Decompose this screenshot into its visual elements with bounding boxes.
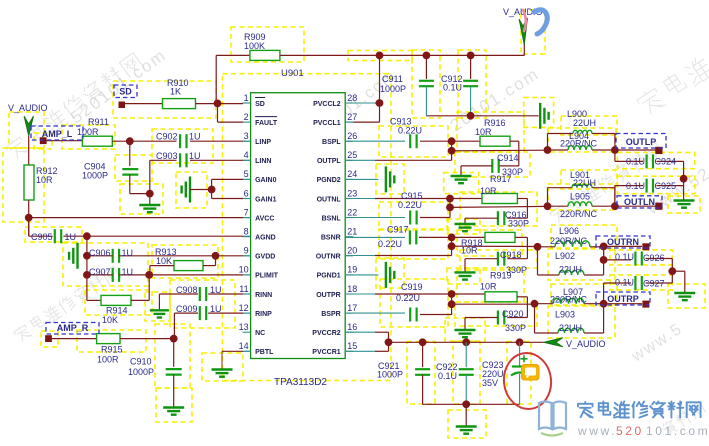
svg-text:GAIN1: GAIN1 — [255, 196, 277, 203]
svg-text:0.1U: 0.1U — [443, 83, 462, 93]
svg-text:GAIN0: GAIN0 — [255, 177, 277, 184]
svg-text:NC: NC — [255, 330, 265, 337]
svg-text:OUTNR: OUTNR — [316, 254, 341, 261]
svg-text:10K: 10K — [156, 256, 172, 266]
svg-text:RINP: RINP — [255, 311, 272, 318]
svg-text:22UH: 22UH — [573, 178, 596, 188]
svg-text:0.22U: 0.22U — [378, 239, 402, 249]
svg-text:10: 10 — [239, 265, 249, 275]
svg-text:PLIMIT: PLIMIT — [255, 273, 279, 280]
svg-text:PVCCR2: PVCCR2 — [312, 330, 341, 337]
svg-text:OUTPL: OUTPL — [317, 158, 341, 165]
svg-text:BSNL: BSNL — [322, 215, 342, 222]
svg-text:OUTLN: OUTLN — [624, 197, 655, 207]
svg-text:C919: C919 — [401, 282, 423, 292]
svg-text:100R: 100R — [77, 127, 99, 137]
svg-text:OUTNL: OUTNL — [317, 196, 342, 203]
svg-text:RINN: RINN — [255, 292, 272, 299]
svg-text:C927: C927 — [643, 279, 665, 289]
svg-text:0.1U: 0.1U — [615, 278, 634, 288]
svg-text:1000P: 1000P — [377, 370, 403, 380]
svg-text:220R/NC: 220R/NC — [560, 139, 598, 149]
svg-text:GVDD: GVDD — [255, 254, 275, 261]
svg-text:3: 3 — [244, 131, 249, 141]
svg-text:4: 4 — [244, 150, 249, 160]
svg-text:21: 21 — [347, 227, 357, 237]
svg-text:L905: L905 — [570, 192, 590, 202]
svg-text:10R: 10R — [480, 186, 497, 196]
svg-text:OUTRP: OUTRP — [607, 294, 639, 304]
svg-text:C925: C925 — [655, 181, 677, 191]
svg-text:C914: C914 — [497, 153, 519, 163]
svg-text:C926: C926 — [643, 253, 665, 263]
svg-text:100R: 100R — [97, 355, 119, 365]
svg-text:C908: C908 — [176, 285, 198, 295]
svg-text:C924: C924 — [655, 157, 677, 167]
svg-text:C907: C907 — [89, 267, 111, 277]
svg-text:330P: 330P — [505, 323, 526, 333]
svg-text:19: 19 — [347, 265, 357, 275]
svg-text:10R: 10R — [480, 282, 497, 292]
svg-text:BSPR: BSPR — [321, 311, 340, 318]
svg-text:C909: C909 — [176, 304, 198, 314]
svg-text:1000P: 1000P — [82, 171, 108, 181]
svg-text:PVCCL1: PVCCL1 — [313, 120, 341, 127]
svg-text:OUTLP: OUTLP — [626, 137, 657, 147]
svg-text:100K: 100K — [244, 41, 265, 51]
svg-text:C902: C902 — [156, 132, 178, 142]
svg-text:22UH: 22UH — [559, 323, 582, 333]
svg-text:SD: SD — [255, 101, 265, 108]
svg-text:R915: R915 — [101, 345, 123, 355]
svg-text:R911: R911 — [88, 117, 109, 127]
svg-text:PBTL: PBTL — [255, 349, 274, 356]
svg-text:22UH: 22UH — [559, 265, 582, 275]
svg-text:R914: R914 — [106, 306, 128, 316]
svg-text:5: 5 — [244, 169, 249, 179]
svg-text:C920: C920 — [502, 309, 524, 319]
svg-text:AGND: AGND — [255, 235, 276, 242]
svg-text:16: 16 — [347, 322, 357, 332]
svg-text:L902: L902 — [555, 251, 575, 261]
svg-text:BSPL: BSPL — [322, 139, 341, 146]
svg-text:C910: C910 — [130, 357, 152, 367]
svg-text:1U: 1U — [210, 304, 222, 314]
svg-text:18: 18 — [347, 284, 357, 294]
svg-text:9: 9 — [244, 246, 249, 256]
svg-text:L903: L903 — [555, 310, 575, 320]
svg-text:R919: R919 — [490, 271, 512, 281]
svg-text:V_AUDIO: V_AUDIO — [8, 103, 48, 113]
svg-text:14: 14 — [239, 341, 249, 351]
svg-text:BSNR: BSNR — [321, 235, 341, 242]
svg-text:520: 520 — [616, 424, 644, 438]
svg-text:10R: 10R — [461, 246, 478, 256]
svg-text:LINN: LINN — [255, 158, 271, 165]
svg-text:1U: 1U — [189, 132, 201, 142]
svg-text:2: 2 — [244, 112, 249, 122]
svg-text:U901: U901 — [281, 68, 304, 79]
svg-text:C911: C911 — [382, 74, 403, 84]
svg-text:AMP_L: AMP_L — [42, 129, 73, 139]
svg-text:1000P: 1000P — [128, 367, 154, 377]
svg-text:C906: C906 — [89, 248, 111, 258]
svg-text:17: 17 — [347, 303, 357, 313]
svg-text:15: 15 — [347, 341, 357, 351]
svg-text:PVCCL2: PVCCL2 — [313, 101, 341, 108]
svg-text:1000P: 1000P — [380, 84, 406, 94]
svg-text:C903: C903 — [156, 151, 178, 161]
svg-text:OUTRN: OUTRN — [607, 237, 639, 247]
svg-text:10R: 10R — [36, 175, 53, 185]
svg-text:28: 28 — [347, 93, 357, 103]
svg-text:101.com: 101.com — [646, 424, 709, 438]
svg-text:0.22U: 0.22U — [396, 293, 420, 303]
svg-text:22: 22 — [347, 207, 357, 217]
svg-text:26: 26 — [347, 131, 357, 141]
svg-text:35V: 35V — [482, 378, 498, 388]
svg-text:1U: 1U — [122, 248, 134, 258]
svg-text:22UH: 22UH — [573, 118, 596, 128]
svg-text:27: 27 — [347, 112, 357, 122]
svg-text:R917: R917 — [490, 174, 512, 184]
svg-text:FAULT: FAULT — [255, 120, 278, 127]
svg-text:PGND2: PGND2 — [317, 177, 341, 184]
svg-text:L906: L906 — [559, 226, 579, 236]
svg-text:6: 6 — [244, 188, 249, 198]
svg-text:PGND1: PGND1 — [317, 273, 341, 280]
svg-text:1: 1 — [244, 93, 249, 103]
svg-text:1U: 1U — [65, 232, 77, 242]
svg-text:10K: 10K — [102, 315, 118, 325]
svg-text:12: 12 — [239, 303, 249, 313]
svg-text:330P: 330P — [508, 219, 529, 229]
svg-text:TPA3113D2: TPA3113D2 — [274, 377, 327, 388]
svg-text:AVCC: AVCC — [255, 215, 274, 222]
svg-text:220R/NC: 220R/NC — [550, 295, 588, 305]
svg-text:AMP_R: AMP_R — [57, 323, 89, 333]
svg-text:7: 7 — [244, 207, 249, 217]
svg-text:13: 13 — [239, 322, 249, 332]
svg-text:23: 23 — [347, 188, 357, 198]
svg-text:0.1U: 0.1U — [626, 181, 645, 191]
svg-text:1K: 1K — [170, 87, 181, 97]
svg-text:25: 25 — [347, 150, 357, 160]
svg-text:10R: 10R — [475, 127, 492, 137]
svg-text:1U: 1U — [210, 285, 222, 295]
svg-text:0.1U: 0.1U — [615, 252, 634, 262]
svg-text:220R/NC: 220R/NC — [560, 209, 598, 219]
svg-text:1U: 1U — [122, 267, 134, 277]
svg-text:11: 11 — [239, 284, 248, 294]
svg-text:SD: SD — [119, 87, 132, 97]
svg-text:V_AUDIO: V_AUDIO — [566, 339, 606, 349]
svg-text:20: 20 — [347, 246, 357, 256]
svg-text:0.22U: 0.22U — [398, 126, 422, 136]
svg-text:0.22U: 0.22U — [398, 200, 422, 210]
svg-text:0.1U: 0.1U — [626, 157, 645, 167]
svg-text:C905: C905 — [31, 232, 53, 242]
svg-text:220R/NC: 220R/NC — [550, 236, 588, 246]
svg-text:0.1U: 0.1U — [438, 371, 457, 381]
svg-text:OUTPR: OUTPR — [316, 292, 341, 299]
svg-text:LINP: LINP — [255, 139, 271, 146]
svg-text:1U: 1U — [189, 151, 201, 161]
svg-text:24: 24 — [347, 169, 357, 179]
svg-text:C917: C917 — [387, 225, 409, 235]
svg-text:8: 8 — [244, 227, 249, 237]
svg-text:PVCCR1: PVCCR1 — [312, 349, 341, 356]
svg-text:C918: C918 — [500, 250, 522, 260]
svg-text:www.: www. — [577, 424, 617, 438]
